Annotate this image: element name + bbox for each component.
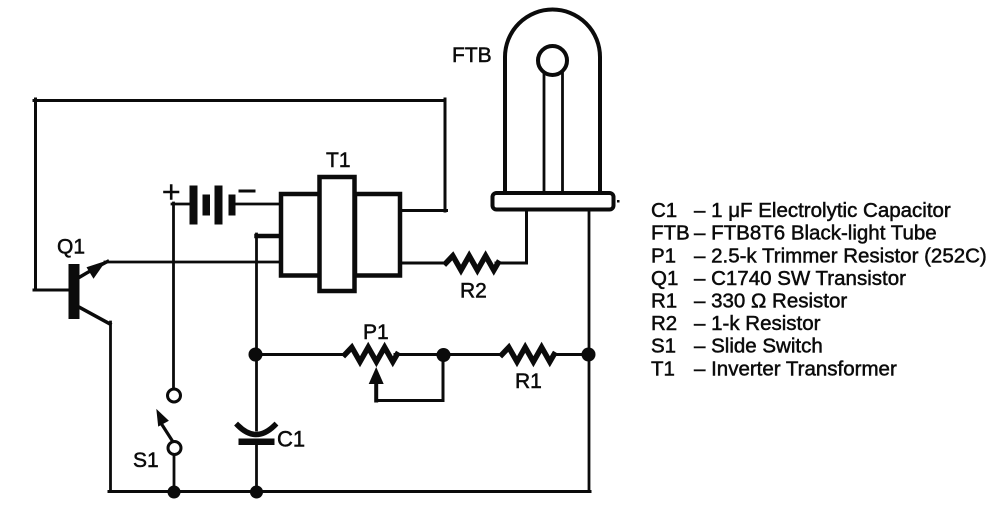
svg-text:R2: R2 xyxy=(460,280,487,303)
svg-text:– 330 Ω Resistor: – 330 Ω Resistor xyxy=(694,290,847,313)
wire P1 to R1 xyxy=(395,353,503,356)
svg-text:Q1: Q1 xyxy=(651,267,678,290)
trimmer P1 wiper arrowhead xyxy=(369,367,384,384)
svg-text:– 1 μF Electrolytic Capacitor: – 1 μF Electrolytic Capacitor xyxy=(694,199,951,222)
svg-text:T1: T1 xyxy=(326,149,351,172)
trimmer P1 zigzag xyxy=(345,347,397,361)
svg-text:P1: P1 xyxy=(651,244,676,267)
svg-text:S1: S1 xyxy=(133,449,159,472)
resistor R1 zigzag xyxy=(502,347,554,361)
wire S1 to bottom rail xyxy=(173,453,176,491)
svg-text:– Slide Switch: – Slide Switch xyxy=(694,335,823,358)
transistor Q1 collector arrowhead xyxy=(87,261,107,279)
junction node R1 right xyxy=(582,348,596,362)
FTB filament stem left xyxy=(543,74,546,193)
svg-text:FTB: FTB xyxy=(651,222,690,245)
capacitor C1 curved plate xyxy=(238,426,275,435)
svg-text:FTB: FTB xyxy=(452,44,492,67)
wire bottom rail xyxy=(109,490,590,493)
transistor Q1 emitter lead xyxy=(79,307,110,324)
transformer T1 right winding box xyxy=(355,194,400,276)
FTB filament circle xyxy=(538,46,567,75)
svg-text:– FTB8T6 Black-light Tube: – FTB8T6 Black-light Tube xyxy=(694,222,937,245)
svg-text:R2: R2 xyxy=(651,312,677,335)
wire battery plus to S1 xyxy=(172,203,175,390)
svg-text:S1: S1 xyxy=(651,335,676,358)
wire R2 left xyxy=(399,262,447,265)
wire R1 to node xyxy=(553,353,589,356)
transformer T1 left winding box xyxy=(281,194,320,276)
switch S1 lever arrowhead xyxy=(156,409,169,427)
wire Q1 collector to T1 xyxy=(105,261,280,264)
wire C1 top xyxy=(255,354,258,430)
wire top loop xyxy=(34,99,445,102)
svg-text:– C1740 SW Transistor: – C1740 SW Transistor xyxy=(694,267,906,290)
switch S1 bottom contact xyxy=(168,442,181,455)
svg-text:– 1-k Resistor: – 1-k Resistor xyxy=(694,312,821,335)
wire loop right vertical xyxy=(444,99,447,211)
wire T1 stub down to P1 row xyxy=(255,234,258,354)
wire battery minus to T1 xyxy=(235,203,279,206)
junction node C1 bottom xyxy=(250,486,263,499)
wire P1 wiper loop xyxy=(376,354,443,401)
capacitor C1 straight plate xyxy=(239,439,275,446)
battery plate long 1 xyxy=(190,186,198,225)
wire C1 bottom xyxy=(255,443,258,491)
battery plus sign xyxy=(165,186,179,199)
FTB tube dome xyxy=(505,10,600,193)
transistor Q1 base bar xyxy=(69,264,80,319)
battery plate short 2 xyxy=(229,195,236,216)
svg-text:– Inverter Transformer: – Inverter Transformer xyxy=(694,357,897,380)
wire plus corner to battery xyxy=(172,203,190,206)
junction node S1 bottom xyxy=(168,486,181,499)
wire T1 stub horizontal xyxy=(257,234,281,239)
svg-text:P1: P1 xyxy=(363,321,389,344)
FTB tube base xyxy=(493,193,614,210)
svg-text:T1: T1 xyxy=(651,357,675,380)
junction node wiper xyxy=(437,348,451,362)
wire FTB right lead xyxy=(588,209,591,492)
transistor Q1 collector lead xyxy=(79,262,108,278)
wire T1 right box top to loop xyxy=(399,209,447,212)
battery plate short 1 xyxy=(203,195,211,216)
svg-text:C1: C1 xyxy=(277,427,305,452)
wire R2 to FTB left lead xyxy=(496,209,527,263)
svg-text:– 2.5-k Trimmer Resistor (252C: – 2.5-k Trimmer Resistor (252C) xyxy=(694,244,987,267)
transformer T1 core bar xyxy=(320,177,355,291)
svg-text:R1: R1 xyxy=(651,290,677,313)
switch S1 lever xyxy=(163,426,172,441)
resistor R2 zigzag xyxy=(446,256,498,270)
svg-text:R1: R1 xyxy=(515,370,542,393)
wire P1 row left xyxy=(255,353,346,356)
FTB filament stem right xyxy=(561,74,564,193)
wire Q1 emitter down xyxy=(109,322,112,491)
svg-text:Q1: Q1 xyxy=(57,236,85,259)
battery minus sign xyxy=(240,190,254,193)
wire left loop vertical xyxy=(34,99,37,290)
switch S1 top contact xyxy=(168,389,181,402)
junction node P1 left xyxy=(249,348,263,362)
wire Q1 base xyxy=(34,289,69,292)
battery plate long 2 xyxy=(215,186,223,225)
svg-text:C1: C1 xyxy=(651,199,677,222)
trimmer P1 wiper stem xyxy=(374,381,378,401)
